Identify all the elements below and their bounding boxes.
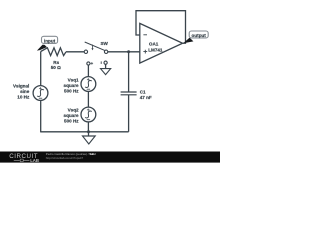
junction dot at plus input / C1 bbox=[127, 50, 130, 53]
svg-text:10 Hz: 10 Hz bbox=[17, 94, 30, 99]
Vsq1 plus terminal bbox=[87, 62, 90, 65]
voltage source Vsq1 bbox=[81, 77, 96, 92]
wire Vsq1 terminal stem bbox=[87, 65, 89, 77]
svg-text:SW: SW bbox=[100, 41, 108, 46]
junction dot at bottom rail bbox=[87, 130, 90, 133]
wire junction down to C1 top bbox=[128, 52, 130, 92]
wire feedback loop from output to minus input bbox=[136, 11, 186, 44]
resistor Rs zigzag bbox=[41, 48, 66, 56]
wire bottom rail bbox=[40, 131, 128, 133]
op-amp OA1 triangle bbox=[140, 23, 183, 63]
svg-text:C1: C1 bbox=[140, 90, 146, 95]
op-amp plus mark bbox=[143, 50, 147, 54]
switch SW actuator arrow bbox=[92, 45, 94, 49]
switch SW arm bbox=[85, 42, 105, 50]
svg-text:Vsignal: Vsignal bbox=[13, 83, 29, 88]
wire C1 bottom to rail bbox=[128, 95, 130, 132]
svg-text:square: square bbox=[64, 113, 80, 118]
svg-text:Vsq2: Vsq2 bbox=[68, 107, 79, 112]
op-amp minus mark bbox=[143, 34, 147, 36]
wire resistor to switch left terminal bbox=[66, 51, 84, 53]
node flag output bbox=[183, 31, 208, 43]
svg-text:sine: sine bbox=[20, 89, 30, 94]
capacitor C1 plates bbox=[121, 92, 137, 95]
wire Vsq1 bottom to Vsq2 top bbox=[87, 91, 89, 107]
node 1 terminal with ground bbox=[101, 61, 111, 74]
wire Vsq2 bottom to rail bbox=[87, 122, 89, 132]
wire Vsignal bottom to rail bbox=[40, 100, 42, 131]
svg-text:500 Hz: 500 Hz bbox=[64, 89, 79, 94]
footer bar bbox=[0, 152, 220, 163]
svg-text:47 nF: 47 nF bbox=[140, 95, 152, 100]
svg-text:square: square bbox=[64, 83, 80, 88]
svg-text:LM741: LM741 bbox=[148, 47, 163, 52]
wire switch right terminal to op-amp plus input bbox=[108, 51, 140, 53]
svg-text:http://circuitlab.com/c7nqw47: http://circuitlab.com/c7nqw47 bbox=[46, 156, 84, 160]
svg-text:+: + bbox=[91, 61, 94, 66]
switch SW right terminal bbox=[104, 50, 107, 53]
svg-text:LAB: LAB bbox=[30, 158, 39, 163]
switch SW left terminal bbox=[84, 50, 87, 53]
voltage source Vsignal bbox=[33, 86, 48, 101]
voltage source Vsq2 bbox=[81, 107, 96, 122]
svg-text:input: input bbox=[44, 38, 56, 43]
footer CircuitLab logo bbox=[9, 153, 39, 163]
ground at bottom rail bbox=[83, 132, 96, 144]
svg-text:50 Ω: 50 Ω bbox=[51, 65, 61, 70]
svg-text:OA1: OA1 bbox=[149, 42, 159, 47]
svg-text:output: output bbox=[192, 33, 207, 38]
svg-text:Vsq1: Vsq1 bbox=[68, 77, 79, 82]
wire left vertical from input corner to Vsignal top bbox=[40, 52, 42, 86]
node flag input bbox=[37, 36, 58, 50]
svg-text:500 Hz: 500 Hz bbox=[64, 119, 79, 124]
